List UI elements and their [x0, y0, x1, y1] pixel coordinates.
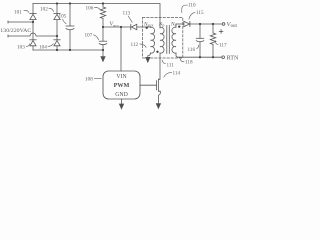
svg-text:113: 113: [123, 11, 131, 17]
wire PWM gate drive to MOSFET: [140, 84, 156, 86]
svg-text:102: 102: [40, 6, 48, 12]
label 103: [17, 44, 30, 51]
wire bridge left column: [32, 4, 34, 51]
plus polarity mark: [219, 29, 223, 33]
wire Vacc node: [103, 26, 131, 28]
winding Ns (secondary): [172, 24, 178, 57]
label 107: [85, 33, 99, 40]
svg-text:Vout: Vout: [227, 21, 238, 29]
winding Np (primary): [160, 27, 164, 53]
svg-text:116: 116: [188, 47, 196, 53]
svg-text:101: 101: [14, 9, 22, 15]
wire PWM GND pin: [121, 99, 123, 104]
ground (bridge negative): [101, 57, 105, 62]
winding Naux: [148, 27, 155, 57]
label 114: [164, 71, 181, 78]
svg-text:107: 107: [85, 33, 93, 39]
svg-text:111: 111: [167, 63, 175, 69]
diode 104: [54, 40, 60, 46]
wire PWM VIN supply: [120, 27, 122, 71]
svg-text:PWM: PWM: [114, 82, 130, 89]
label 110: [182, 3, 196, 13]
label 112: [131, 42, 147, 48]
svg-text:108: 108: [85, 76, 93, 82]
wire AC input line 2 with hop over left branch: [8, 33, 57, 37]
svg-text:115: 115: [196, 10, 204, 16]
svg-text:GND: GND: [115, 92, 128, 98]
svg-text:Np: Np: [158, 22, 165, 28]
svg-text:VIN: VIN: [116, 74, 127, 80]
junction dots: [32, 2, 214, 58]
diode 101: [30, 14, 36, 20]
label 113: [123, 11, 133, 23]
transformer T: dashed enclosure: [143, 17, 183, 58]
label 118: [180, 59, 193, 66]
label 108: [85, 76, 102, 82]
svg-text:104: 104: [39, 45, 47, 51]
svg-text:130/220VAC: 130/220VAC: [0, 28, 31, 34]
resistor R106: [100, 4, 105, 28]
capacitor C107: [99, 27, 107, 50]
output terminal Vout: [222, 23, 225, 26]
wire bottom rail to ground: [33, 50, 103, 57]
wire top rail from bridge to transformer primary: [33, 4, 160, 29]
PWM IC pin labels: [114, 74, 130, 98]
svg-text:110: 110: [188, 3, 196, 9]
diode 113: [131, 24, 151, 30]
wire bridge right column: [56, 4, 58, 51]
polarity dot Ns: [178, 25, 180, 27]
svg-text:RTN: RTN: [227, 55, 240, 62]
label 106: [86, 6, 101, 12]
polarity dot Naux: [146, 27, 148, 29]
diode 102: [54, 14, 60, 20]
wire secondary output: [176, 23, 184, 25]
label 101: [14, 9, 29, 15]
wire secondary return rail: [178, 56, 222, 58]
label 115: [189, 10, 204, 20]
label 117: [215, 40, 227, 48]
capacitor C116: [196, 24, 204, 57]
capacitor C105: [66, 4, 74, 51]
diode 103: [30, 40, 36, 46]
svg-text:Ns: Ns: [170, 22, 177, 28]
label 104: [39, 44, 54, 51]
svg-text:105: 105: [59, 14, 67, 20]
svg-text:118: 118: [185, 60, 193, 66]
svg-text:117: 117: [219, 43, 227, 49]
svg-text:103: 103: [17, 45, 25, 51]
wire primary to MOSFET drain: [159, 53, 160, 79]
ground (MOSFET source): [156, 104, 160, 109]
label 102: [40, 6, 54, 12]
svg-text:Naux: Naux: [143, 22, 153, 28]
return terminal RTN: [222, 56, 225, 59]
resistor R117: [210, 24, 215, 57]
MOSFET Q114: [156, 79, 160, 104]
svg-text:106: 106: [86, 6, 94, 12]
ground (aux winding): [146, 57, 150, 62]
label 116: [188, 45, 199, 53]
diode 115: [184, 21, 222, 26]
label 111: [162, 60, 174, 69]
svg-text:Vacc: Vacc: [110, 22, 120, 28]
label 105: [59, 14, 67, 24]
ground (PWM): [119, 104, 123, 109]
transformer core: [167, 26, 170, 54]
svg-text:114: 114: [173, 71, 181, 77]
polarity dot Np: [156, 51, 158, 53]
svg-text:112: 112: [131, 42, 139, 48]
wire AC input line 1: [8, 21, 33, 23]
PWM controller U108 box: [103, 71, 140, 99]
